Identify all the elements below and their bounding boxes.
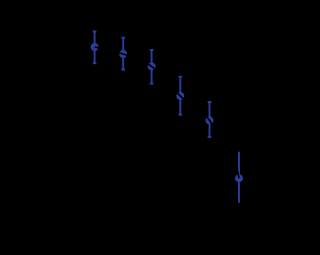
point 1 error bar: [93, 32, 97, 64]
marker 6: [235, 174, 243, 182]
marker 5: [206, 116, 214, 124]
point 5 error bar: [208, 102, 212, 137]
point 2 error bar: [121, 38, 125, 70]
point 3 error bar: [150, 50, 154, 84]
marker 1: [91, 43, 99, 51]
black fit curve over markers: [95, 47, 239, 178]
marker 2: [119, 50, 127, 58]
point 4 error bar: [179, 77, 183, 115]
marker 4: [176, 92, 184, 100]
marker 3: [148, 62, 156, 70]
point 6 error bar (no caps): [238, 152, 240, 203]
